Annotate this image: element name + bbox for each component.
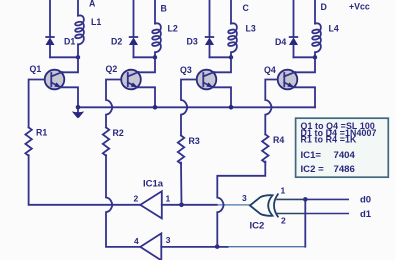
- xor gate IC2 input arc: [274, 194, 278, 218]
- transistor Q4: [278, 70, 298, 90]
- svg-text:D3: D3: [187, 37, 198, 47]
- parts info box: [296, 118, 389, 177]
- wire diode branch ch4 top: [293, 0, 295, 37]
- resistor R1: [25, 127, 31, 155]
- svg-text:R3: R3: [189, 136, 200, 146]
- node rail junction Q2 emitter: [153, 105, 158, 110]
- svg-text:D4: D4: [275, 37, 286, 47]
- wire IC1a input line to XOR output: [162, 204, 217, 206]
- wire collector Q4: [295, 57, 316, 72]
- wire emitter Q4: [293, 87, 315, 107]
- svg-text:L4: L4: [329, 24, 339, 34]
- svg-text:IC1a: IC1a: [143, 178, 164, 189]
- wire light segment bottom line to d0 drop: [228, 246, 305, 248]
- wire diode branch ch2 top: [133, 0, 135, 37]
- svg-text:L3: L3: [246, 24, 256, 34]
- wire IC1b input line: [161, 246, 228, 248]
- svg-text:IC2: IC2: [250, 220, 265, 231]
- wire junction bridge ch2: [134, 56, 156, 58]
- svg-text:1: 1: [281, 186, 286, 196]
- svg-text:D1: D1: [64, 37, 75, 47]
- wire emitter Q2: [137, 87, 156, 107]
- svg-text:C: C: [243, 3, 250, 13]
- node junction ch3: [229, 55, 233, 59]
- svg-text:IC2 =: IC2 =: [301, 164, 325, 175]
- svg-text:4: 4: [134, 236, 139, 246]
- svg-text:R4: R4: [273, 135, 284, 145]
- svg-text:+Vcc: +Vcc: [349, 1, 370, 11]
- diode D3: [206, 37, 214, 57]
- op-amp IC1b inverter: [140, 233, 161, 260]
- svg-text:7486: 7486: [334, 164, 355, 175]
- svg-text:R1 to R4 =1K: R1 to R4 =1K: [301, 134, 357, 144]
- svg-text:IC1=: IC1=: [301, 150, 322, 161]
- svg-text:A: A: [89, 0, 96, 9]
- wire light pin2 stub: [276, 213, 306, 215]
- inductor L1: [75, 15, 84, 57]
- svg-text:d1: d1: [360, 209, 372, 220]
- svg-text:3: 3: [166, 235, 171, 245]
- wire light segment XOR output: [217, 204, 250, 206]
- svg-text:Q3: Q3: [180, 65, 192, 75]
- diode D1: [46, 37, 54, 57]
- wire coil branch ch3 top: [230, 0, 232, 23]
- wire diode branch ch3 top: [209, 0, 211, 37]
- ground: [72, 107, 84, 118]
- wire d0 line: [308, 198, 350, 200]
- svg-text:L2: L2: [168, 24, 178, 34]
- wire junction bridge ch4: [294, 56, 316, 58]
- transistor Q2: [121, 70, 141, 90]
- wire emitter Q3: [212, 87, 231, 107]
- svg-text:L1: L1: [91, 17, 101, 27]
- svg-text:3: 3: [242, 193, 247, 203]
- wire collector Q3: [214, 57, 232, 72]
- wire diode branch ch1 top: [49, 0, 51, 37]
- wire d1 line: [306, 213, 349, 215]
- diode D4: [290, 37, 298, 57]
- node d0 junction: [303, 197, 308, 202]
- node junction ch2: [153, 55, 157, 59]
- wire collector Q1: [62, 57, 79, 72]
- svg-text:R1: R1: [36, 128, 47, 138]
- op-amp IC1a inverter: [140, 191, 162, 218]
- wire R3 bottom: [180, 163, 183, 205]
- svg-text:Q4: Q4: [264, 65, 276, 75]
- svg-text:Q2: Q2: [106, 64, 118, 74]
- wire collector Q2: [138, 57, 155, 72]
- svg-text:Q1: Q1: [30, 64, 42, 74]
- wire coil branch ch2 top: [154, 0, 156, 23]
- wire d0 drop to bottom line: [304, 199, 306, 246]
- wire R1 to inverter IC1a output: [29, 155, 141, 205]
- node bottom junction R4 path: [215, 244, 220, 249]
- node rail junction Q1 emitter: [76, 105, 81, 110]
- wire light pin1 stub: [276, 198, 303, 200]
- node rail junction Q3 emitter: [229, 105, 234, 110]
- svg-text:d0: d0: [360, 195, 371, 206]
- wire coil branch ch4 top: [314, 0, 316, 23]
- node R3 junction: [179, 203, 184, 208]
- transistor Q3: [197, 70, 217, 90]
- svg-text:R2: R2: [113, 128, 124, 138]
- inductor L3: [228, 23, 237, 57]
- wire base Q2 to R2 with hop over ground rail: [106, 80, 121, 128]
- wire R2 down to inverter IC1b output with hop over IC1a line: [106, 155, 140, 247]
- svg-text:1: 1: [166, 193, 171, 203]
- svg-text:D: D: [321, 2, 327, 12]
- node junction ch4: [313, 55, 317, 59]
- diode D2: [130, 37, 138, 57]
- svg-text:2: 2: [281, 216, 286, 226]
- wire base Q1 to R1: [29, 80, 45, 128]
- inductor L4: [312, 23, 321, 57]
- wire coil branch ch1 top: [77, 0, 79, 16]
- wire base Q4 to R4 with hop over ground rail: [265, 80, 277, 135]
- wire R4 path elbow and drop with hop over XOR output line: [217, 162, 265, 247]
- wire junction bridge ch3: [210, 56, 232, 58]
- resistor R2: [103, 127, 109, 155]
- wire ground rail: [78, 106, 315, 108]
- svg-text:7404: 7404: [334, 150, 356, 161]
- wire junction bridge ch1: [50, 56, 78, 58]
- svg-text:B: B: [161, 4, 167, 14]
- inductor L2: [152, 23, 161, 57]
- svg-text:D2: D2: [111, 37, 122, 47]
- transistor Q1: [45, 70, 65, 90]
- svg-text:2: 2: [134, 194, 139, 204]
- xor gate IC2 body: [250, 195, 273, 216]
- wire base Q3 to R3 with hop over ground rail: [181, 80, 197, 136]
- node junction ch1: [76, 55, 80, 59]
- wire emitter Q1: [60, 87, 78, 107]
- resistor R3: [178, 136, 184, 164]
- resistor R4: [262, 134, 268, 162]
